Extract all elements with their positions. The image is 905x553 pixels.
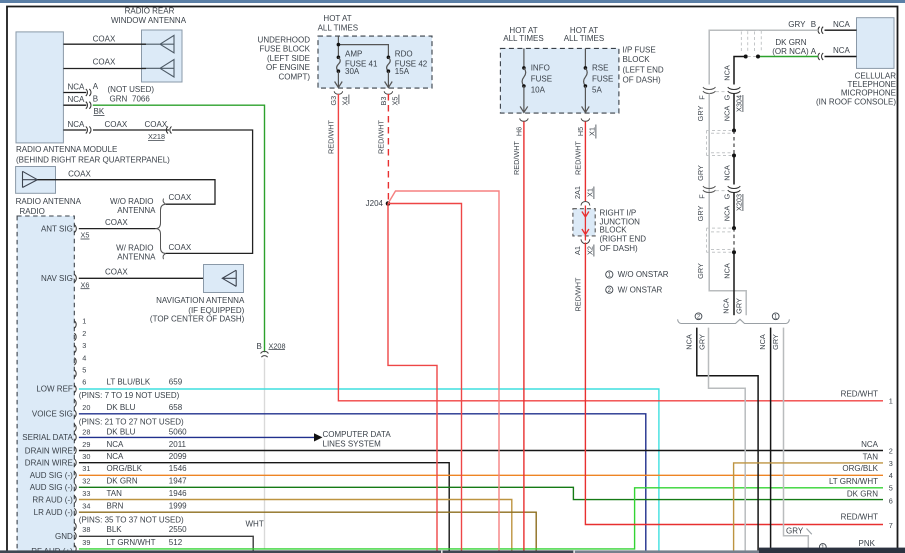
svg-text:A: A [93,82,99,91]
rear window antenna symbol 1 [142,35,175,53]
svg-text:RED/WHT: RED/WHT [574,140,583,175]
svg-text:BLK: BLK [107,525,123,534]
svg-text:2A1: 2A1 [573,186,582,199]
svg-text:1946: 1946 [169,489,187,498]
note 1 W/O ONSTAR [606,271,613,278]
svg-text:FUSE BLOCK: FUSE BLOCK [259,45,310,54]
svg-text:4: 4 [82,353,86,362]
svg-text:W/O ONSTAR: W/O ONSTAR [618,270,669,279]
connector X203 [703,186,716,192]
svg-text:NCA: NCA [722,298,731,314]
svg-text:COAX: COAX [105,218,128,227]
wire coax radio antenna to W/O branch [37,180,215,205]
svg-text:WINDOW ANTENNA: WINDOW ANTENNA [111,16,187,25]
svg-text:PNK: PNK [859,539,876,548]
svg-text:RADIO ANTENNA: RADIO ANTENNA [16,197,82,206]
wire NCA COAX X218 row [63,129,86,131]
svg-text:DK BLU: DK BLU [107,428,136,437]
svg-text:UNDERHOOD: UNDERHOOD [258,35,311,44]
wire GRY from mic B [709,30,818,84]
svg-text:658: 658 [169,403,183,412]
svg-text:5060: 5060 [169,428,187,437]
svg-text:COAX: COAX [93,58,116,67]
wire NCA right branch [770,328,772,553]
svg-text:HOT AT: HOT AT [323,14,351,23]
svg-text:5: 5 [889,483,893,492]
bottom slate bar right [759,548,905,553]
svg-text:GRY: GRY [696,106,705,122]
svg-text:G3: G3 [329,96,338,106]
connector pin A [818,53,823,60]
svg-text:20: 20 [82,403,90,412]
svg-text:COMPT): COMPT) [278,72,310,81]
svg-text:BRN: BRN [107,502,124,511]
svg-text:NCA: NCA [68,95,86,104]
svg-text:F: F [698,95,707,100]
svg-text:X4: X4 [341,97,350,106]
svg-text:B: B [811,20,816,29]
svg-text:X208: X208 [269,341,286,350]
note marker 2 left branch [695,313,702,320]
svg-text:2099: 2099 [169,452,187,461]
svg-text:GND: GND [55,532,73,541]
svg-text:(BEHIND RIGHT REAR QUARTERPANE: (BEHIND RIGHT REAR QUARTERPANEL) [16,155,170,164]
top window bar [0,0,905,3]
svg-text:LT BLU/BLK: LT BLU/BLK [107,377,151,386]
svg-text:AUD SIG (-): AUD SIG (-) [30,483,73,492]
svg-text:BLOCK: BLOCK [600,226,628,235]
svg-text:LINES SYSTEM: LINES SYSTEM [323,439,382,448]
note marker 1 right branch [772,313,779,320]
rear window antenna symbol 2 [142,60,175,78]
fuse RDO FUSE 42 15A [387,56,391,60]
svg-text:COAX: COAX [145,120,168,129]
connector X304 [703,87,716,93]
svg-text:33: 33 [82,489,90,498]
svg-text:3: 3 [889,459,893,468]
svg-text:X304: X304 [735,95,744,112]
svg-text:28: 28 [82,428,90,437]
wire RED/WHT from AMP fuse to right edge (1) [338,94,883,401]
svg-text:W/ RADIO: W/ RADIO [116,243,153,252]
svg-text:DK GRN: DK GRN [107,477,138,486]
radio rear window antenna box [142,30,183,82]
svg-text:34: 34 [82,502,90,511]
svg-text:(TOP CENTER OF DASH): (TOP CENTER OF DASH) [150,315,245,324]
svg-text:GRY: GRY [786,527,804,536]
svg-text:1999: 1999 [169,502,187,511]
radio antenna module box [16,32,63,143]
wire ANT SIG coax [79,228,156,230]
svg-text:DK GRN: DK GRN [847,489,878,498]
arrow computer data lines [314,433,323,441]
wire NCA X304 down [733,94,735,131]
svg-text:ALL TIMES: ALL TIMES [503,34,543,43]
svg-text:VOICE SIG: VOICE SIG [32,409,73,418]
svg-text:FUSE: FUSE [531,74,552,83]
svg-text:RADIO REAR: RADIO REAR [125,6,175,15]
wire NCA mic pin A [825,56,857,58]
wire 658 DK BLU [79,414,646,553]
svg-text:RED/WHT: RED/WHT [841,513,878,522]
svg-text:3: 3 [82,341,86,350]
svg-text:AUD SIG (-): AUD SIG (-) [30,471,73,480]
svg-text:5: 5 [82,366,86,375]
svg-text:(PINS: 7 TO 19 NOT USED): (PINS: 7 TO 19 NOT USED) [79,391,180,400]
wire 2011 drain to right edge [79,450,883,452]
svg-text:F: F [698,194,707,199]
onstar option split brace [681,319,786,323]
navigation antenna box [204,265,244,293]
connector H5 X1 [581,118,589,121]
svg-text:RADIO: RADIO [20,207,45,216]
svg-text:NCA: NCA [107,440,125,449]
svg-text:COAX: COAX [93,35,116,44]
svg-text:(PINS: 21 TO 27 NOT USED): (PINS: 21 TO 27 NOT USED) [79,417,184,426]
svg-text:H6: H6 [514,127,523,136]
svg-text:X5: X5 [81,231,90,240]
bottom slate bar left [0,550,574,553]
svg-text:512: 512 [169,538,183,547]
svg-text:COAX: COAX [169,243,192,252]
svg-text:6: 6 [889,496,893,505]
svg-text:(IN ROOF CONSOLE): (IN ROOF CONSOLE) [816,97,896,106]
connector A1 X2 [581,239,590,243]
svg-text:NCA: NCA [861,440,879,449]
note 2 W/ ONSTAR [606,286,613,293]
radio antenna symbol [23,171,38,187]
svg-text:(IF EQUIPPED): (IF EQUIPPED) [188,306,244,315]
svg-text:X2: X2 [586,246,595,255]
svg-text:A1: A1 [573,246,582,255]
svg-text:NCA: NCA [722,165,731,181]
svg-text:(PINS: 35 TO 37 NOT USED): (PINS: 35 TO 37 NOT USED) [79,515,184,524]
splice J204 [386,201,391,206]
svg-text:W/ ONSTAR: W/ ONSTAR [618,285,663,294]
svg-text:COAX: COAX [105,120,128,129]
svg-text:7: 7 [889,521,893,530]
wire 1999 BRN [79,512,536,553]
svg-text:LOW REF: LOW REF [36,384,73,393]
svg-text:7066: 7066 [132,95,150,104]
svg-text:29: 29 [82,440,90,449]
wire NCA pin B / GRN 7066 [63,104,86,106]
svg-text:DRAIN WIRE: DRAIN WIRE [25,446,73,455]
radio antenna amplifier box [16,167,56,194]
wire RED/WHT dashed from RDO fuse to J204 [387,94,389,202]
svg-text:B: B [93,95,98,104]
svg-text:OF DASH): OF DASH) [600,244,639,253]
shield below X203 [732,226,736,230]
svg-text:GRY: GRY [771,334,780,350]
wire coax module to rear antenna 1 [63,43,146,45]
svg-text:DRAIN WIRE: DRAIN WIRE [25,459,73,468]
wire NCA mic pin B [825,29,857,31]
svg-text:(LEFT END: (LEFT END [623,66,664,75]
svg-text:H5: H5 [576,127,585,136]
connector pin B [818,27,823,34]
svg-text:X218: X218 [148,132,165,141]
svg-text:G: G [722,94,731,100]
svg-text:31: 31 [82,464,90,473]
note marker 1 at bottom [819,544,826,551]
fuse feed wiring inside box [338,36,388,57]
fuse AMP FUSE 41 30A [337,56,341,60]
svg-text:RDO: RDO [395,49,413,58]
svg-text:(NOT USED): (NOT USED) [108,85,155,94]
wire NCA pin A (not used) [63,92,86,94]
svg-text:WHT: WHT [246,520,264,529]
svg-text:NCA: NCA [722,106,731,122]
wire WHT from X208 down [264,359,266,550]
svg-text:I/P FUSE: I/P FUSE [623,45,656,54]
svg-text:ANTENNA: ANTENNA [117,253,156,262]
svg-text:GRY: GRY [735,298,744,314]
svg-text:NCA: NCA [68,82,86,91]
svg-text:NCA: NCA [68,120,86,129]
svg-text:GRN: GRN [110,95,128,104]
wire 2099 drain [79,463,449,553]
svg-text:COAX: COAX [68,170,91,179]
svg-text:4: 4 [889,471,893,480]
svg-text:NAV SIG: NAV SIG [41,274,73,283]
svg-text:ALL TIMES: ALL TIMES [318,24,358,33]
wire NCA from drain to corner [734,57,746,85]
svg-text:G: G [722,193,731,199]
svg-text:5A: 5A [592,86,602,95]
fuse RSE FUSE 5A [584,48,586,68]
svg-text:X5: X5 [391,97,400,106]
wire RED/WHT junction block to right edge (7) [585,243,883,525]
svg-text:NCA: NCA [833,20,851,29]
wire GRY left branch [709,328,746,553]
svg-text:RED/WHT: RED/WHT [841,390,878,399]
svg-text:30: 30 [82,452,90,461]
svg-text:GRY: GRY [788,20,806,29]
svg-text:X203: X203 [735,194,744,211]
svg-text:NCA: NCA [722,206,731,222]
svg-text:OF ENGINE: OF ENGINE [266,63,310,72]
shield drain at mic [744,55,748,59]
svg-text:ORG/BLK: ORG/BLK [842,464,878,473]
right I/P junction block dashed box [573,209,595,236]
svg-text:39: 39 [82,538,90,547]
wire NAV SIG coax [79,277,204,279]
svg-text:ANT SIG: ANT SIG [41,224,73,233]
fuse INFO FUSE 10A [523,48,525,68]
svg-text:X1: X1 [588,127,597,136]
svg-text:15A: 15A [395,67,410,76]
svg-text:NCA: NCA [107,452,125,461]
wire 5060 DK BLU to computer data [79,436,315,438]
wire RED/WHT INFO fuse long vertical [523,122,525,553]
ip fuse block dashed box [500,48,619,113]
svg-text:OF DASH): OF DASH) [623,76,662,85]
svg-text:J204: J204 [366,199,384,208]
svg-text:RR AUD (-): RR AUD (-) [32,495,73,504]
svg-text:GRY: GRY [696,165,705,181]
svg-text:LR AUD (-): LR AUD (-) [34,508,73,517]
svg-text:TAN: TAN [107,489,123,498]
svg-text:DK BLU: DK BLU [107,403,136,412]
svg-text:RED/WHT: RED/WHT [512,140,521,175]
wire NCA left branch [697,328,758,553]
svg-text:W/O RADIO: W/O RADIO [110,197,154,206]
svg-text:659: 659 [169,377,183,386]
svg-text:2011: 2011 [169,440,187,449]
wire GRN 7066 green run to X208 [93,105,265,352]
wire red J204 up branch [388,191,499,553]
svg-text:COAX: COAX [169,193,192,202]
cellular telephone microphone box [857,18,895,69]
svg-text:LT GRN/WHT: LT GRN/WHT [829,477,878,486]
svg-text:ORG/BLK: ORG/BLK [107,464,143,473]
svg-text:(RIGHT END: (RIGHT END [600,234,647,243]
svg-text:6: 6 [82,377,86,386]
svg-text:B3: B3 [379,97,388,106]
svg-text:FUSE: FUSE [592,74,613,83]
svg-text:NCA: NCA [723,65,732,81]
underhood fuse block dashed box [318,36,432,88]
svg-text:32: 32 [82,477,90,486]
wire red through junction block with arrows [582,206,589,241]
svg-text:X1: X1 [586,188,595,197]
wire TAN to right edge (3) [734,463,883,553]
svg-text:38: 38 [82,525,90,534]
svg-text:ANTENNA: ANTENNA [117,206,156,215]
svg-text:(OR NCA): (OR NCA) [772,47,809,56]
connector B3 X5 [384,91,392,94]
wire red J204 down branch [388,204,437,553]
svg-text:GRY: GRY [696,206,705,222]
svg-text:30A: 30A [345,67,360,76]
navigation antenna symbol [222,270,236,286]
svg-text:NCA: NCA [758,334,767,350]
wire 512 LT GRN/WHT [79,488,883,549]
svg-text:SERIAL DATA: SERIAL DATA [22,433,73,442]
wire NCA down to split [733,252,735,315]
connector G3 X4 [334,91,342,94]
svg-text:2: 2 [889,447,893,456]
connector H6 [520,118,528,121]
wire RED/WHT RSE fuse to junction block [584,122,586,202]
svg-text:BK: BK [94,107,105,116]
svg-text:2: 2 [82,329,86,338]
radio dashed box [17,216,74,553]
svg-text:RIGHT I/P: RIGHT I/P [600,209,637,218]
shield between X304 and X203 [732,129,736,133]
wire coax module to rear antenna 2 [63,68,146,70]
svg-text:LT GRN/WHT: LT GRN/WHT [107,538,156,547]
svg-text:1546: 1546 [169,464,187,473]
svg-text:DK GRN: DK GRN [775,38,806,47]
svg-text:GRY: GRY [698,334,707,350]
svg-text:1: 1 [889,396,893,405]
wire GRY right branch [784,328,809,550]
svg-text:INFO: INFO [531,64,550,73]
wire NCA to X203 [733,156,735,185]
branch brace [156,204,167,253]
svg-text:RADIO ANTENNA MODULE: RADIO ANTENNA MODULE [16,145,117,154]
svg-text:10A: 10A [531,86,546,95]
svg-text:1947: 1947 [169,477,187,486]
svg-text:RED/WHT: RED/WHT [327,119,336,154]
svg-text:2550: 2550 [169,525,187,534]
svg-text:RSE: RSE [592,64,608,73]
wire red J204 right branch [388,204,462,553]
svg-text:ALL TIMES: ALL TIMES [564,34,604,43]
svg-text:TAN: TAN [863,452,879,461]
svg-text:NAVIGATION ANTENNA: NAVIGATION ANTENNA [156,296,245,305]
svg-text:B: B [257,342,262,351]
svg-text:A: A [811,47,817,56]
wire DK GRN mic A [758,56,818,58]
wire GRY X304 to jog [709,94,746,316]
svg-text:RED/WHT: RED/WHT [377,119,386,154]
svg-text:NCA: NCA [685,334,694,350]
svg-text:AMP: AMP [345,49,362,58]
svg-text:X6: X6 [81,280,90,289]
svg-text:NCA: NCA [722,263,731,279]
wire 659 LT BLU/BLK cyan [79,389,659,553]
wire NCA X203 down [733,193,735,229]
svg-text:BLOCK: BLOCK [623,55,651,64]
svg-text:COAX: COAX [105,267,128,276]
wire 2550 BLK [79,536,253,553]
wire 1546 ORG/BLK [79,474,883,476]
wire coax X218 to W/ RADIO ANTENNA branch [166,130,253,253]
svg-text:(LEFT SIDE: (LEFT SIDE [267,54,310,63]
svg-text:COMPUTER DATA: COMPUTER DATA [323,430,392,439]
wire 1947 DK GRN with jog [79,487,883,499]
svg-text:1: 1 [82,316,86,325]
svg-text:NCA: NCA [833,46,851,55]
wire 1946 TAN [79,500,512,553]
svg-text:GRY: GRY [696,263,705,279]
svg-text:RED/WHT: RED/WHT [574,277,583,312]
